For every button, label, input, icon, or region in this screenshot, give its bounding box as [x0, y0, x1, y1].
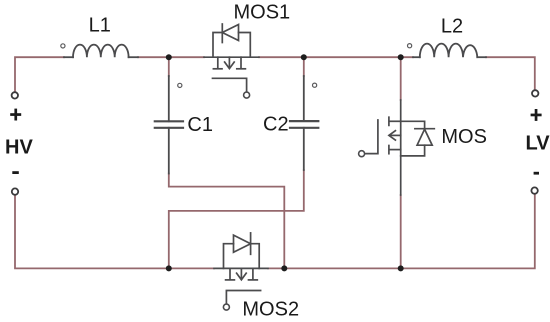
wire HV- to bottom rail to MOS2	[15, 195, 214, 269]
transistor MOS2	[214, 233, 268, 310]
polarity + (HV)	[10, 109, 21, 121]
wire C1 bottom crossover to node D	[169, 174, 284, 269]
wire node A to C1 top	[168, 57, 170, 76]
junction node F	[398, 265, 404, 271]
svg-text:C1: C1	[187, 114, 213, 136]
polarity - (HV)	[12, 171, 18, 174]
capacitor C2	[290, 76, 318, 170]
wire HV+ to L1	[15, 57, 64, 92]
wire node B to C2 top	[303, 57, 305, 76]
inductor L1	[64, 45, 138, 58]
junction node E	[398, 54, 404, 60]
wire node E to MOS drain	[400, 57, 402, 100]
terminal HV-	[12, 188, 18, 194]
transistor MOS (right)	[359, 100, 435, 195]
junction node C	[166, 265, 172, 271]
inductor L2	[413, 44, 486, 58]
wire MOS source to node F	[400, 195, 402, 268]
wire MOS1 to L2 (through nodes at x=304 and x=401)	[259, 56, 413, 58]
wire L1 to MOS1 (through node at x=169)	[138, 56, 204, 58]
wire C2 bottom crossover to node C	[169, 170, 304, 268]
capacitor C1	[155, 76, 183, 174]
terminal HV+	[12, 92, 18, 98]
svg-text:MOS2: MOS2	[242, 298, 299, 320]
svg-text:HV: HV	[5, 136, 33, 158]
polarity + (LV)	[531, 109, 542, 121]
svg-text:C2: C2	[263, 114, 289, 136]
polarity - (LV)	[534, 172, 539, 175]
svg-text:L1: L1	[89, 15, 111, 37]
pin marker L1	[61, 44, 65, 48]
pin marker C1	[178, 83, 182, 87]
svg-text:L2: L2	[441, 16, 463, 38]
wire MOS2 to LV- (through nodes x=284 and x=401)	[268, 194, 535, 269]
junction node B	[301, 54, 307, 60]
svg-text:MOS1: MOS1	[234, 1, 291, 23]
transistor MOS1	[204, 24, 259, 98]
svg-text:LV: LV	[526, 132, 550, 154]
terminal LV+	[532, 90, 538, 96]
pin marker C2	[313, 83, 317, 87]
pin marker L2	[408, 44, 412, 48]
terminal LV-	[531, 187, 537, 193]
junction node A	[166, 54, 172, 60]
junction node D	[281, 265, 287, 271]
wire L2 to LV+	[486, 57, 535, 92]
svg-text:MOS: MOS	[441, 126, 487, 148]
